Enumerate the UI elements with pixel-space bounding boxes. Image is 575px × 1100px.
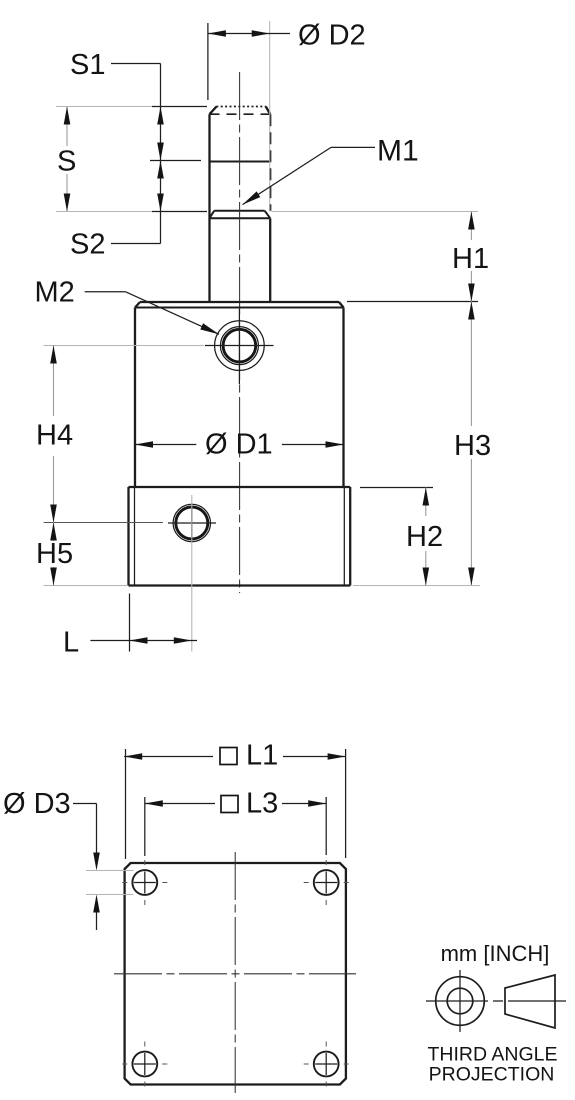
extension line L1 right [345,749,347,858]
dim line D2 [208,33,290,35]
arrow L3 left [145,800,163,807]
svg-text:S: S [57,146,76,178]
extension line S bottom grey [56,211,152,213]
dim line S upper seg [66,107,68,147]
hole M2 bore circle (thick) [223,329,256,362]
wire body top full-width line [135,307,344,309]
centerline bottom view horizontal [114,973,356,975]
centerline side-hole horizontal [168,522,216,524]
arrow S1 bottom [157,143,164,161]
dim line D1 right seg [282,444,344,446]
arrow H1 bottom [468,284,475,302]
wire flange right outer edge [349,487,351,586]
hole side bore circle (thick) [176,507,208,539]
extension line S mid dark [150,160,201,162]
dim line H2 seg b [425,551,427,586]
arrow H3 top [468,302,475,320]
label L1 square symbol [220,748,237,765]
extension line S bottom dark [152,211,207,213]
wire M1 leader horizontal [331,146,375,148]
svg-text:H5: H5 [36,538,73,570]
svg-text:M2: M2 [35,277,75,309]
arrow H3 bottom [468,568,475,586]
dim line H2 seg a [425,488,427,517]
extension line flange-bottom left grey [44,585,128,587]
arrow M2 [200,323,219,334]
arrow L3 right [308,800,326,807]
hole bolt top-right [314,870,339,895]
extension line D3 bottom tangent grey [86,894,134,896]
extension line S top grey [56,106,152,108]
extension line D3 top tangent grey [86,870,134,872]
svg-text:H3: H3 [454,430,491,462]
wire M2 leader horizontal [85,291,126,293]
centerline side-hole vertical dark part [191,506,193,541]
dim line H4 seg a [53,346,55,417]
arrow D2 left [208,30,226,37]
svg-text:H1: H1 [452,243,489,275]
wire S2 leader [111,243,161,245]
hole M2 outer thread circle [215,321,265,371]
wire M1 leader diagonal [243,147,332,204]
extension line side-hole-center [44,522,163,524]
label L3 square symbol [221,796,238,813]
dim line D1 left seg [135,444,196,446]
wire flange left inner line [134,487,136,586]
wire stud thread root line (dashed) [210,113,271,115]
symbol frustum circle inner [447,988,473,1014]
extension line D2 right (grey) [269,21,271,212]
centerline front view vertical [239,72,241,593]
extension line H1 top grey [272,211,479,213]
wire stud top thread crest (dotted) [216,106,265,108]
extension line D2 left [207,23,209,100]
wire flange bottom edge [129,584,351,586]
wire stud lower chamfer bottom line [210,217,271,219]
hole bolt top-left [132,870,157,895]
arrow M1 [243,191,261,204]
centerline M2 horizontal crosshair [205,345,274,347]
wire S1-S2 bracket vertical [160,64,162,244]
wire stud top-left chamfer [210,107,217,115]
extension line S top dark [152,106,207,108]
wire body right edge [342,308,344,488]
wire stud lower chamfer right diag [265,211,271,219]
arrow D3 upper [93,853,100,871]
dim line H1 seg a [470,212,472,241]
wire body left edge [134,308,136,488]
arrow S bottom [64,194,71,212]
arrow S1 top [157,107,164,125]
arrow S2 top [157,161,164,179]
svg-text:Ø D2: Ø D2 [298,20,366,52]
svg-text:H2: H2 [406,521,443,553]
extension line body-top [347,301,478,303]
wire stud right edge dashed (thread) [269,114,271,211]
wire D3 leader vertical [96,804,98,857]
arrow D1 right [326,441,344,448]
wire S1 leader [111,63,161,65]
dim line H3 seg a [470,302,472,427]
extension line L3 right [325,797,327,855]
wire D3 lower tail [96,912,98,930]
svg-text:L: L [63,627,79,659]
dim line L3 right seg [282,803,326,805]
wire stud right edge lower [269,218,271,302]
svg-text:S1: S1 [70,49,105,81]
arrow S2 bottom [157,194,164,212]
wire body top face line [140,301,339,303]
wire stud left edge [208,114,210,302]
wire stud lower chamfer top line [214,210,264,212]
arrow L left [130,637,148,644]
arrow H5 top [50,523,57,541]
dim line L1 right seg [283,756,346,758]
arrow D2 right [252,30,270,37]
arrow H4 bottom [50,505,57,523]
wire stud mid joint line [210,161,271,163]
hole bolt bottom-left [132,1052,157,1077]
wire flange left outer edge [127,487,129,586]
centerline M2 vertical crosshair [238,309,240,384]
extension line L left [129,594,131,652]
wire flange right inner line [343,487,345,586]
arrow S top [64,107,71,125]
extension line L right grey (hole centerline) [191,495,193,652]
arrow D3 lower [93,895,100,913]
centerline projection horizontal [426,1000,566,1002]
dim line H5 seg b [53,567,55,586]
svg-text:S2: S2 [70,229,105,261]
arrow H2 top [423,488,430,506]
centerline bottom view vertical [234,852,236,1093]
arrow L1 right [328,753,346,760]
dim line L3 left seg [145,803,215,805]
wire M2 leader diagonal [125,292,219,335]
dim line S lower seg [66,174,68,212]
arrow L right [174,637,192,644]
svg-text:Ø D1: Ø D1 [205,429,273,461]
svg-text:THIRD ANGLE: THIRD ANGLE [427,1044,557,1066]
centerline projection vertical [459,970,461,1032]
wire body top-right chamfer [339,302,344,308]
arrow D1 left [135,441,153,448]
wire D3 leader horizontal [73,803,97,805]
arrow L1 left [124,753,142,760]
svg-text:L1: L1 [246,740,278,772]
svg-text:mm [INCH]: mm [INCH] [441,941,550,966]
symbol frustum side view [505,975,555,1028]
extension line flange-top right [360,487,433,489]
dim line H4 seg b [53,456,55,523]
extension line M2-center grey [44,345,204,347]
wire stud top-right chamfer [266,107,270,115]
hole M2 chamfer circle [220,327,258,365]
arrow H4 top [50,346,57,364]
extension line L3 left [144,797,146,856]
svg-text:H4: H4 [36,420,73,452]
svg-text:L3: L3 [246,788,278,820]
dim line H5 seg a [53,523,55,542]
bottom view square outline [125,863,346,1085]
dim line H1 seg b [470,271,472,302]
dim line H3 seg b [470,459,472,586]
svg-text:M1: M1 [377,135,419,168]
wire body top-left chamfer [135,302,140,308]
dim line L with leader [90,640,197,642]
symbol frustum circle outer [436,977,485,1026]
arrow H5 bottom [50,568,57,586]
arrow H2 bottom [423,568,430,586]
svg-text:Ø D3: Ø D3 [3,788,71,820]
wire stud lower chamfer left diag [210,211,215,219]
hole bolt bottom-right [314,1052,339,1077]
hole side outer circle [173,504,210,541]
arrow H1 top [468,212,475,230]
svg-text:PROJECTION: PROJECTION [429,1064,555,1086]
wire flange top edge [129,486,351,488]
extension line L1 left [125,749,127,859]
extension line flange-bottom right grey [353,585,480,587]
dim line L1 left seg [124,756,213,758]
